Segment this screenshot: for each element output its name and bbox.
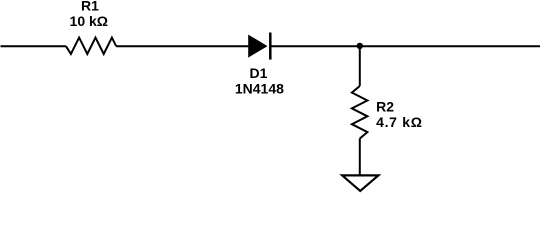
- svg-text:10 kΩ: 10 kΩ: [70, 13, 108, 29]
- diode D1 cathode bar: [269, 33, 272, 60]
- ground: [342, 175, 378, 191]
- svg-text:D1: D1: [250, 65, 268, 81]
- node junction dot: [357, 43, 363, 49]
- diode D1 (anode triangle): [248, 35, 267, 58]
- wire: R2 to ground: [359, 139, 361, 176]
- svg-text:4.7 kΩ: 4.7 kΩ: [376, 114, 423, 130]
- resistor R1: [66, 38, 116, 54]
- wire: left input to R1: [1, 45, 67, 47]
- svg-text:1N4148: 1N4148: [235, 81, 284, 97]
- wire: D1 cathode to right output: [272, 45, 540, 47]
- wire: junction down to R2: [359, 46, 361, 86]
- wire: R1 to D1 anode: [116, 45, 248, 47]
- resistor R2: [352, 86, 368, 139]
- svg-text:R1: R1: [81, 0, 99, 14]
- svg-text:R2: R2: [376, 98, 394, 114]
